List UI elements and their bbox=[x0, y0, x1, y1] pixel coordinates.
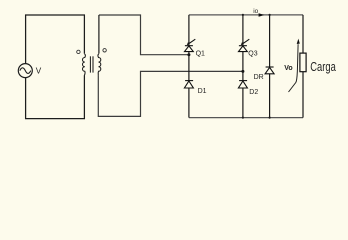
wire leg1 vertical bbox=[188, 15, 190, 46]
svg-text:D2: D2 bbox=[249, 89, 258, 96]
svg-text:Q1: Q1 bbox=[196, 51, 205, 58]
node bottom rail junction at D2 bbox=[242, 117, 244, 119]
diode DR bbox=[265, 67, 274, 74]
svg-text:Carga: Carga bbox=[310, 60, 336, 74]
wire primary loop top bbox=[26, 15, 85, 64]
transformer core bbox=[89, 56, 91, 72]
wire DR leg vertical bbox=[269, 15, 271, 67]
svg-text:V: V bbox=[36, 67, 42, 76]
node top rail junction at Q3 bbox=[242, 14, 244, 16]
Vo measurement arrow bbox=[289, 44, 299, 92]
node AC2 junction dot bbox=[241, 70, 244, 73]
svg-text:DR: DR bbox=[254, 74, 264, 81]
svg-text:io: io bbox=[253, 8, 258, 15]
transformer secondary winding bbox=[98, 54, 101, 76]
AC source V bbox=[18, 64, 32, 78]
wire leg2 vertical bbox=[242, 15, 244, 46]
svg-text:Q3: Q3 bbox=[248, 51, 257, 58]
load resistor Carga bbox=[300, 53, 306, 72]
wire primary loop bottom bbox=[26, 75, 85, 118]
node AC1 junction dot bbox=[187, 53, 190, 56]
diode D2 bbox=[238, 81, 247, 88]
wire secondary lead up bbox=[98, 15, 100, 54]
node top rail junction at DR bbox=[269, 14, 271, 16]
wire secondary bottom path bbox=[98, 71, 243, 116]
thyristor Q1 bbox=[185, 39, 196, 51]
wire secondary top path to bridge bbox=[99, 15, 189, 55]
wire load leg bbox=[302, 15, 304, 53]
io current arrow bbox=[259, 13, 265, 17]
diode D1 bbox=[184, 81, 193, 88]
wire bridge top rail bbox=[189, 14, 303, 16]
transformer primary winding bbox=[83, 54, 86, 76]
wire bridge bottom rail bbox=[189, 117, 303, 119]
polarity dot left bbox=[77, 50, 80, 53]
node bottom rail junction at DR bbox=[269, 117, 271, 119]
svg-text:Vo: Vo bbox=[284, 65, 292, 72]
polarity dot right bbox=[103, 49, 106, 52]
thyristor Q3 bbox=[239, 39, 250, 51]
svg-text:D1: D1 bbox=[198, 88, 207, 95]
